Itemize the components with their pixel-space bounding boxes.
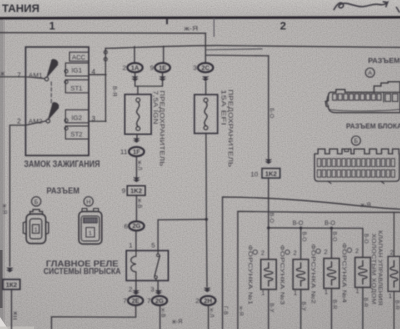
svg-text:1: 1 bbox=[89, 231, 92, 237]
bus 2 bbox=[238, 211, 400, 329]
wire: drop to 2C bbox=[205, 33, 207, 63]
connector oval 1E pin 9 bbox=[155, 63, 170, 72]
connector Б face view bbox=[30, 210, 43, 215]
svg-text:1: 1 bbox=[389, 293, 393, 300]
svg-text:2: 2 bbox=[355, 248, 359, 255]
svg-text:В-О: В-О bbox=[331, 232, 337, 242]
svg-text:9: 9 bbox=[150, 65, 154, 72]
svg-text:2G: 2G bbox=[132, 223, 140, 230]
arrow into 1A wire bbox=[131, 76, 138, 81]
svg-text:2Н: 2Н bbox=[204, 298, 212, 305]
handwritten squiggle bbox=[334, 2, 388, 10]
svg-text:В-У: В-У bbox=[268, 303, 274, 313]
wire 1K2 to injector bus bbox=[268, 178, 270, 259]
svg-text:ТАНИЯ: ТАНИЯ bbox=[2, 3, 40, 15]
riser wire from IG1 bbox=[105, 48, 107, 121]
svg-text:1: 1 bbox=[34, 228, 37, 234]
connector Н face view bbox=[82, 209, 99, 212]
main relay box bbox=[126, 251, 168, 281]
svg-text:ФОРСУНКА №3: ФОРСУНКА №3 bbox=[279, 245, 285, 305]
svg-text:ж-В: ж-В bbox=[136, 199, 142, 209]
svg-text:1: 1 bbox=[129, 242, 133, 249]
svg-text:ж-Я: ж-Я bbox=[237, 306, 243, 316]
svg-text:1: 1 bbox=[294, 290, 298, 297]
arrow into 10 1K2 bbox=[265, 159, 272, 164]
contact ST1 bbox=[66, 80, 89, 93]
connector oval 1F pin 11 bbox=[129, 147, 144, 156]
svg-text:2: 2 bbox=[196, 298, 200, 305]
svg-text:ж-Я: ж-Я bbox=[1, 204, 7, 214]
svg-text:Г-В: Г-В bbox=[222, 306, 228, 315]
merge wires to fuse bbox=[135, 72, 163, 94]
wire to relay pin 5 bbox=[158, 219, 206, 250]
wire L3 drop bbox=[268, 56, 270, 160]
wire fuse1 to 1F bbox=[136, 134, 138, 139]
circled А bbox=[365, 68, 374, 77]
svg-text:1А: 1А bbox=[131, 65, 139, 72]
inline connector symbols on riser bbox=[104, 51, 107, 54]
idle valve box bbox=[388, 256, 400, 291]
wire AM1 inside box bbox=[26, 77, 45, 79]
svg-text:3: 3 bbox=[92, 116, 96, 123]
svg-text:ST2: ST2 bbox=[71, 132, 83, 139]
wire to 2G, label ж-В bbox=[136, 195, 138, 221]
arrow into 1E wire bbox=[159, 76, 166, 81]
idle valve feed wire bbox=[393, 212, 395, 256]
svg-text:1: 1 bbox=[261, 290, 265, 297]
injector 1 bottom wire bbox=[268, 289, 270, 329]
wire L3 (to 10-1K2) bbox=[206, 54, 269, 57]
connector oval 1A pin 2 bbox=[127, 63, 142, 72]
svg-text:ACC: ACC bbox=[72, 55, 86, 62]
wire 1F to link, label ж-Л bbox=[136, 156, 138, 177]
svg-text:7: 7 bbox=[17, 73, 21, 80]
svg-text:В-R: В-R bbox=[393, 300, 399, 310]
svg-text:РАЗЪЕМ: РАЗЪЕМ bbox=[368, 56, 400, 65]
svg-text:В-О: В-О bbox=[293, 221, 304, 227]
svg-text:1К2: 1К2 bbox=[6, 282, 18, 289]
svg-text:КЛАПАН УПРАВЛЕНИЯ: КЛАПАН УПРАВЛЕНИЯ bbox=[376, 231, 382, 306]
svg-text:1Е: 1Е bbox=[159, 65, 167, 72]
circled Н bbox=[84, 197, 93, 206]
switch lever AM1 bbox=[46, 60, 58, 79]
svg-text:В-R: В-R bbox=[362, 298, 368, 308]
svg-text:1F: 1F bbox=[133, 149, 140, 156]
contact IG2 bbox=[66, 110, 89, 123]
svg-text:Б: Б bbox=[354, 139, 358, 145]
wire below to bottom edge bbox=[11, 289, 13, 329]
contact IG1 bbox=[66, 63, 89, 76]
page link 1K2 (bottom left) bbox=[3, 279, 20, 289]
arrow below 2C bbox=[202, 76, 209, 81]
junction bbox=[205, 218, 208, 221]
injector 4 bottom wire bbox=[362, 287, 364, 329]
svg-text:2: 2 bbox=[261, 250, 265, 257]
arrow into 1K2 bbox=[133, 177, 140, 182]
page link 10 1K2 bbox=[262, 168, 280, 178]
svg-text:3: 3 bbox=[151, 287, 155, 294]
svg-text:ж-Л: ж-Л bbox=[208, 308, 214, 318]
svg-text:1K2: 1K2 bbox=[265, 171, 277, 178]
connector oval 2E pin 7 bbox=[128, 296, 143, 305]
svg-text:2: 2 bbox=[390, 250, 394, 257]
svg-text:А: А bbox=[368, 71, 372, 77]
svg-text:2: 2 bbox=[280, 21, 286, 33]
connector oval 2G pin 7 bbox=[152, 296, 167, 305]
svg-text:ST1: ST1 bbox=[71, 85, 83, 92]
circled Б (ECU) bbox=[351, 136, 360, 145]
ignition switch box bbox=[26, 47, 89, 156]
svg-text:ФОРСУНКА №2: ФОРСУНКА №2 bbox=[309, 244, 315, 304]
svg-text:IG2: IG2 bbox=[72, 115, 83, 122]
svg-text:2: 2 bbox=[324, 249, 328, 256]
connector A side view bbox=[325, 82, 400, 113]
svg-text:1: 1 bbox=[324, 289, 328, 296]
svg-text:РАЗЪЕМ: РАЗЪЕМ bbox=[47, 187, 80, 196]
connector oval 2C pin 3 bbox=[198, 63, 213, 72]
svg-text:3: 3 bbox=[193, 65, 197, 72]
svg-text:11: 11 bbox=[120, 149, 127, 156]
svg-text:7: 7 bbox=[123, 298, 127, 305]
svg-text:1: 1 bbox=[49, 21, 55, 33]
svg-text:2: 2 bbox=[129, 287, 133, 294]
header rule bbox=[0, 16, 400, 19]
svg-text:2: 2 bbox=[123, 65, 127, 72]
wire L2 bbox=[206, 48, 262, 51]
svg-text:В-Я: В-Я bbox=[111, 86, 117, 97]
switch lever AM2 bbox=[47, 103, 59, 121]
svg-text:СИСТЕМЫ ВПРЫСКА: СИСТЕМЫ ВПРЫСКА bbox=[44, 266, 121, 276]
svg-text:ж-В: ж-В bbox=[160, 308, 166, 318]
contact ST2 bbox=[66, 126, 89, 139]
svg-text:ФОРСУНКА №4: ФОРСУНКА №4 bbox=[341, 243, 347, 303]
svg-text:5: 5 bbox=[151, 242, 155, 249]
connector oval 2G pin 6 bbox=[129, 221, 144, 230]
svg-text:Н: Н bbox=[86, 200, 90, 206]
svg-text:ж-Л: ж-Л bbox=[136, 161, 142, 171]
svg-text:2Е: 2Е bbox=[132, 298, 140, 305]
svg-text:9: 9 bbox=[122, 188, 126, 195]
svg-text:15А ЕFI: 15А ЕFI bbox=[220, 90, 227, 126]
wire AM2 feed bbox=[10, 125, 26, 266]
svg-text:ЗАМОК ЗАЖИГАНИЯ: ЗАМОК ЗАЖИГАНИЯ bbox=[24, 159, 100, 169]
mechanical link bbox=[50, 82, 52, 103]
ECU connector block bbox=[315, 149, 400, 181]
injector 2 bbox=[324, 258, 340, 288]
wire down to 2H bbox=[205, 219, 208, 286]
injector 3 bbox=[293, 259, 309, 289]
svg-text:ж-Я: ж-Я bbox=[361, 203, 371, 209]
svg-text:2G: 2G bbox=[155, 298, 163, 305]
wire from 2E (L route to bottom) bbox=[52, 305, 136, 329]
arrow into 1F bbox=[133, 138, 140, 143]
wire fuse2 output bbox=[205, 133, 207, 219]
injector 4 bbox=[355, 257, 371, 287]
svg-text:IG1: IG1 bbox=[72, 68, 83, 75]
svg-text:10: 10 bbox=[251, 171, 259, 178]
stub to 1A bbox=[134, 47, 136, 63]
svg-text:Б-О: Б-О bbox=[268, 108, 274, 119]
wire from 2G to bottom, label ж-В bbox=[159, 305, 161, 329]
svg-text:ХОЛОСТЫМ ХОДОМ: ХОЛОСТЫМ ХОДОМ bbox=[370, 234, 376, 305]
contact ACC bbox=[70, 52, 89, 61]
page link 9 1K2 bbox=[127, 186, 145, 196]
svg-text:7: 7 bbox=[147, 298, 151, 305]
svg-text:Б: Б bbox=[34, 200, 38, 206]
injector 3 bottom wire bbox=[300, 289, 302, 329]
bus wire (B+ feed, y=33) bbox=[0, 32, 206, 35]
fuse F1 7.5A IGN bbox=[125, 94, 151, 134]
svg-text:ж-Я: ж-Я bbox=[184, 26, 198, 33]
svg-text:В-О: В-О bbox=[300, 232, 306, 242]
wire L1 (IG1 feed to right) bbox=[106, 46, 400, 49]
svg-text:2: 2 bbox=[17, 119, 21, 126]
tick below header (section 2) bbox=[213, 19, 215, 37]
wire AM1 feed bbox=[0, 76, 26, 78]
svg-text:2С: 2С bbox=[202, 65, 210, 72]
svg-text:В-О: В-О bbox=[362, 234, 368, 244]
page edge shading bbox=[0, 18, 3, 329]
connector A pin row bbox=[333, 94, 337, 100]
arrow into 1K2 bbox=[6, 268, 13, 273]
svg-text:1: 1 bbox=[356, 288, 360, 295]
wire below 2H, label ж-Л bbox=[207, 305, 209, 329]
injector 2 bottom wire bbox=[331, 288, 333, 329]
stub to 1E bbox=[163, 46, 165, 63]
svg-text:В-О: В-О bbox=[325, 221, 336, 227]
wire IG1 output bbox=[89, 74, 106, 76]
svg-text:ж-Я: ж-Я bbox=[172, 320, 182, 326]
fuse F2 15A EFI bbox=[194, 95, 217, 134]
svg-text:ж: ж bbox=[1, 72, 5, 78]
svg-text:1K2: 1K2 bbox=[130, 188, 142, 195]
idle valve bottom wire bbox=[393, 291, 395, 329]
svg-text:2: 2 bbox=[293, 250, 297, 257]
ECU pin rows bbox=[317, 159, 321, 167]
circled Б bbox=[32, 197, 41, 206]
connector oval 2H pin 2 bbox=[200, 296, 215, 305]
svg-text:В-О: В-О bbox=[268, 213, 274, 224]
svg-text:В-R: В-R bbox=[331, 300, 337, 310]
relay coil bbox=[135, 251, 137, 281]
wire 2C to fuse2 bbox=[205, 82, 207, 95]
wire 2G to relay pin 1 bbox=[135, 231, 137, 251]
relay switch bbox=[157, 251, 159, 254]
injector 1 bbox=[261, 259, 277, 289]
bus ж-Я (to bottom and right) bbox=[223, 197, 400, 329]
drop to injector 2 bbox=[331, 228, 333, 258]
svg-text:7,5А IGN: 7,5А IGN bbox=[151, 91, 158, 125]
svg-text:РАЗЪЕМ БЛОКА: РАЗЪЕМ БЛОКА bbox=[346, 121, 400, 130]
svg-text:6: 6 bbox=[124, 223, 128, 230]
section tick bbox=[166, 18, 168, 24]
svg-text:В-У: В-У bbox=[300, 302, 306, 312]
injector feed bus В-О bbox=[269, 228, 363, 258]
drop to injector 3 bbox=[300, 228, 302, 259]
svg-text:ФОРСУНКА №1: ФОРСУНКА №1 bbox=[246, 245, 252, 305]
wire IG2 output bbox=[89, 120, 106, 122]
